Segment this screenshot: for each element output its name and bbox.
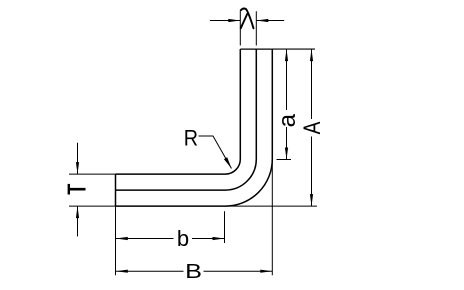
wire extension line top surface leftwards for T	[69, 173, 116, 175]
arrowhead T top (points down)	[76, 162, 79, 174]
wire middle contour	[116, 49, 257, 190]
label T (rotated, drawn as strokes)	[69, 184, 86, 195]
wire top face of vertical leg	[240, 48, 271, 50]
svg-text:R: R	[184, 126, 198, 150]
wire extension line bottom surface leftwards for T	[69, 205, 116, 207]
wire inner contour (left edge, inner fillet R, top surface)	[116, 49, 241, 174]
arrowhead R leader (points down-right)	[224, 157, 232, 168]
wire T dimension line lower part	[77, 206, 79, 236]
arrowhead b left (points left)	[116, 237, 128, 240]
arrowhead A bottom (points down)	[310, 194, 313, 206]
wire extension line above left for t	[239, 11, 241, 45]
wire extension line top face rightwards for a and A	[272, 48, 315, 50]
wire extension line bottom surface rightwards for A	[225, 205, 317, 207]
wire A dimension line	[311, 49, 313, 206]
wire t dimension line right part	[256, 20, 284, 22]
wire end face of horizontal leg	[115, 174, 117, 206]
arrowhead b right (points right)	[213, 237, 225, 240]
wire a dimension line	[286, 49, 288, 159]
label t (lambda glyph) above	[241, 9, 254, 29]
wire extension tick at bend tangent for a	[277, 159, 292, 161]
wire extension line right edge downwards for B	[271, 159, 273, 275]
wire B dimension line	[116, 270, 272, 272]
wire R leader line	[199, 136, 232, 169]
arrowhead B right (points right)	[260, 270, 272, 273]
svg-text:B: B	[185, 260, 202, 283]
arrowhead a top (points up)	[285, 49, 288, 61]
wire extension line end face downwards for b and B	[115, 206, 117, 275]
wire outer contour (right edge, outer fillet, bottom surface)	[116, 49, 273, 206]
arrowhead B left (points left)	[116, 270, 128, 273]
wire t dimension line left part	[210, 20, 240, 22]
wire T dimension line upper part	[77, 143, 79, 174]
wire extension line above right for t	[255, 11, 257, 45]
arrowhead A top (points up)	[310, 49, 313, 61]
arrowhead T bottom (points up)	[76, 206, 79, 218]
wire extension line for b right end	[224, 211, 226, 243]
arrowhead a bottom (points down)	[285, 148, 288, 160]
arrowhead t left (points right)	[228, 19, 240, 22]
wire b dimension line	[116, 238, 225, 240]
svg-text:A: A	[298, 121, 326, 134]
arrowhead t right (points left)	[256, 19, 268, 22]
svg-text:b: b	[177, 226, 189, 251]
